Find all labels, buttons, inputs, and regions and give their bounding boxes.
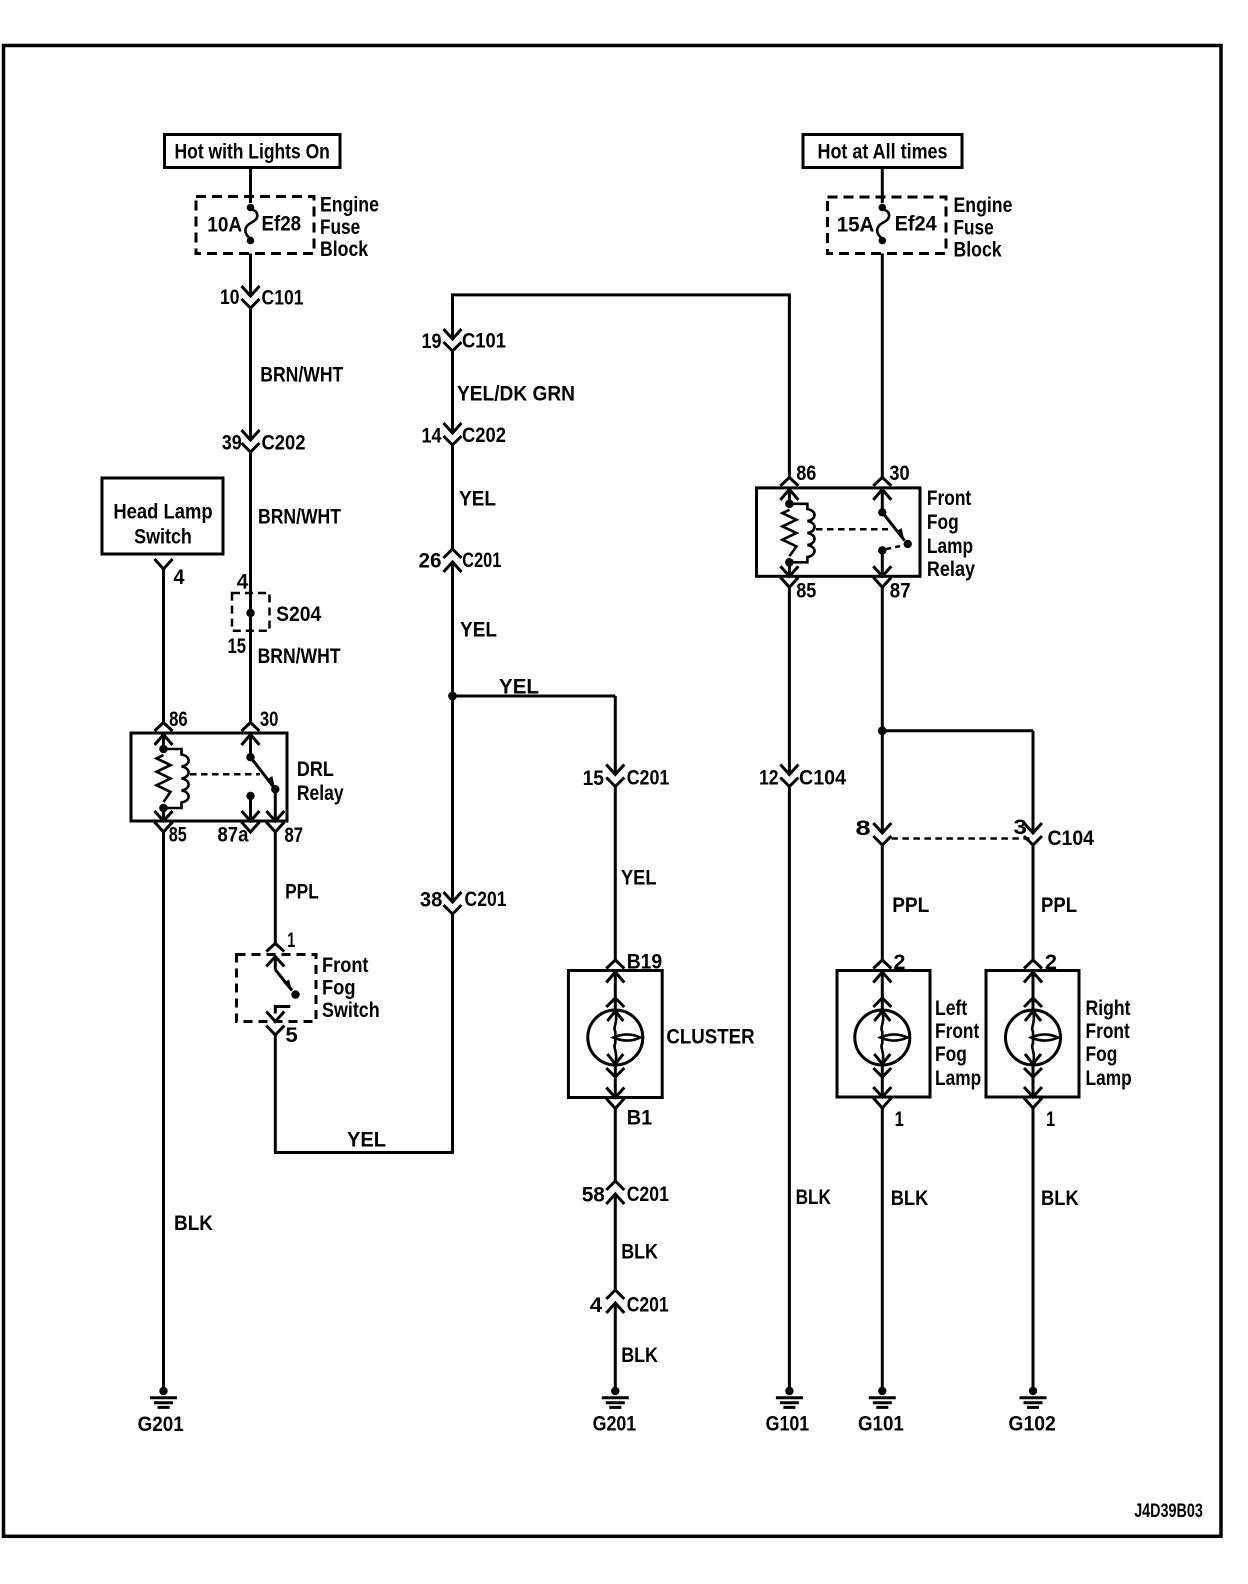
svg-text:YEL: YEL <box>621 867 657 890</box>
svg-text:BLK: BLK <box>621 1344 658 1367</box>
svg-text:8: 8 <box>856 817 872 840</box>
svg-text:86: 86 <box>796 462 816 485</box>
svg-text:1: 1 <box>1046 1108 1055 1131</box>
svg-text:87a: 87a <box>218 823 249 846</box>
svg-text:12: 12 <box>759 767 778 790</box>
svg-text:15A: 15A <box>837 214 875 237</box>
svg-text:C201: C201 <box>462 549 501 572</box>
svg-text:85: 85 <box>169 823 187 846</box>
svg-text:58: 58 <box>582 1184 606 1207</box>
svg-text:Head Lamp: Head Lamp <box>113 501 212 524</box>
svg-text:Fuse: Fuse <box>954 216 994 239</box>
svg-text:87: 87 <box>890 580 911 603</box>
svg-text:Relay: Relay <box>297 782 344 805</box>
svg-text:C101: C101 <box>462 330 506 353</box>
svg-text:C202: C202 <box>262 431 306 454</box>
svg-text:Block: Block <box>320 238 368 261</box>
svg-text:Lamp: Lamp <box>1086 1067 1132 1090</box>
svg-text:C201: C201 <box>627 1294 669 1317</box>
svg-text:BRN/WHT: BRN/WHT <box>258 505 341 528</box>
svg-text:Engine: Engine <box>954 194 1013 217</box>
svg-text:BRN/WHT: BRN/WHT <box>258 645 341 668</box>
svg-text:10: 10 <box>220 286 240 309</box>
svg-text:Front: Front <box>927 487 971 510</box>
svg-text:30: 30 <box>889 462 909 485</box>
svg-text:1: 1 <box>895 1108 904 1131</box>
svg-text:Front: Front <box>322 954 369 977</box>
svg-text:15: 15 <box>583 767 605 790</box>
svg-text:85: 85 <box>796 580 816 603</box>
svg-text:86: 86 <box>169 708 188 731</box>
svg-text:YEL/DK GRN: YEL/DK GRN <box>457 383 575 406</box>
svg-text:BRN/WHT: BRN/WHT <box>260 364 343 387</box>
svg-text:4: 4 <box>590 1294 603 1317</box>
svg-text:Fuse: Fuse <box>320 216 360 239</box>
svg-text:PPL: PPL <box>892 894 929 917</box>
svg-text:G102: G102 <box>1008 1413 1055 1436</box>
svg-text:4: 4 <box>237 571 249 594</box>
svg-text:Front: Front <box>1086 1020 1130 1043</box>
svg-text:19: 19 <box>422 330 442 353</box>
svg-text:DRL: DRL <box>297 758 334 781</box>
svg-text:Ef28: Ef28 <box>262 213 302 236</box>
svg-text:Front: Front <box>935 1020 979 1043</box>
svg-text:Hot with Lights On: Hot with Lights On <box>175 141 330 164</box>
svg-text:14: 14 <box>422 425 442 448</box>
svg-text:PPL: PPL <box>285 881 319 904</box>
svg-text:Right: Right <box>1086 997 1131 1020</box>
svg-text:Left: Left <box>935 997 967 1020</box>
svg-text:Engine: Engine <box>320 194 379 217</box>
svg-text:C104: C104 <box>799 767 846 790</box>
svg-text:S204: S204 <box>276 603 321 626</box>
svg-text:Hot at All times: Hot at All times <box>818 141 948 164</box>
svg-text:Fog: Fog <box>1086 1043 1118 1066</box>
svg-text:1: 1 <box>287 929 295 952</box>
svg-text:Fog: Fog <box>322 977 356 1000</box>
svg-text:CLUSTER: CLUSTER <box>666 1026 754 1049</box>
svg-text:4: 4 <box>174 566 185 589</box>
svg-text:30: 30 <box>260 708 279 731</box>
svg-text:C101: C101 <box>262 287 304 310</box>
svg-text:Switch: Switch <box>322 999 380 1022</box>
svg-text:YEL: YEL <box>459 488 496 511</box>
svg-text:Switch: Switch <box>134 526 192 549</box>
svg-text:G101: G101 <box>858 1413 904 1436</box>
svg-text:C201: C201 <box>627 767 670 790</box>
svg-text:87: 87 <box>285 824 304 847</box>
svg-text:39: 39 <box>222 432 242 455</box>
svg-text:BLK: BLK <box>1041 1187 1079 1210</box>
svg-text:Fog: Fog <box>935 1043 967 1066</box>
svg-text:BLK: BLK <box>174 1212 213 1235</box>
svg-text:BLK: BLK <box>621 1241 658 1264</box>
svg-text:G101: G101 <box>766 1413 810 1436</box>
svg-text:G201: G201 <box>138 1413 184 1436</box>
svg-text:C104: C104 <box>1048 827 1095 850</box>
svg-text:PPL: PPL <box>1041 894 1077 917</box>
svg-text:G201: G201 <box>593 1413 637 1436</box>
svg-text:YEL: YEL <box>460 619 497 642</box>
svg-text:26: 26 <box>419 550 442 573</box>
svg-text:3: 3 <box>1013 816 1027 839</box>
svg-text:YEL: YEL <box>347 1129 386 1152</box>
svg-text:C201: C201 <box>627 1183 669 1206</box>
svg-text:B1: B1 <box>627 1107 653 1130</box>
svg-text:C201: C201 <box>465 888 507 911</box>
svg-text:15: 15 <box>228 635 247 658</box>
svg-text:YEL: YEL <box>499 676 539 699</box>
svg-text:J4D39B03: J4D39B03 <box>1134 1501 1203 1522</box>
svg-text:38: 38 <box>420 889 443 912</box>
svg-text:10A: 10A <box>207 214 242 237</box>
svg-text:Relay: Relay <box>927 558 975 581</box>
svg-text:Block: Block <box>954 239 1002 262</box>
svg-text:Fog: Fog <box>927 511 959 534</box>
svg-text:Lamp: Lamp <box>935 1067 981 1090</box>
svg-text:Ef24: Ef24 <box>895 213 937 236</box>
svg-text:BLK: BLK <box>796 1186 831 1209</box>
svg-text:C202: C202 <box>462 424 506 447</box>
svg-text:BLK: BLK <box>891 1187 929 1210</box>
svg-text:5: 5 <box>285 1024 298 1047</box>
svg-text:Lamp: Lamp <box>927 535 973 558</box>
